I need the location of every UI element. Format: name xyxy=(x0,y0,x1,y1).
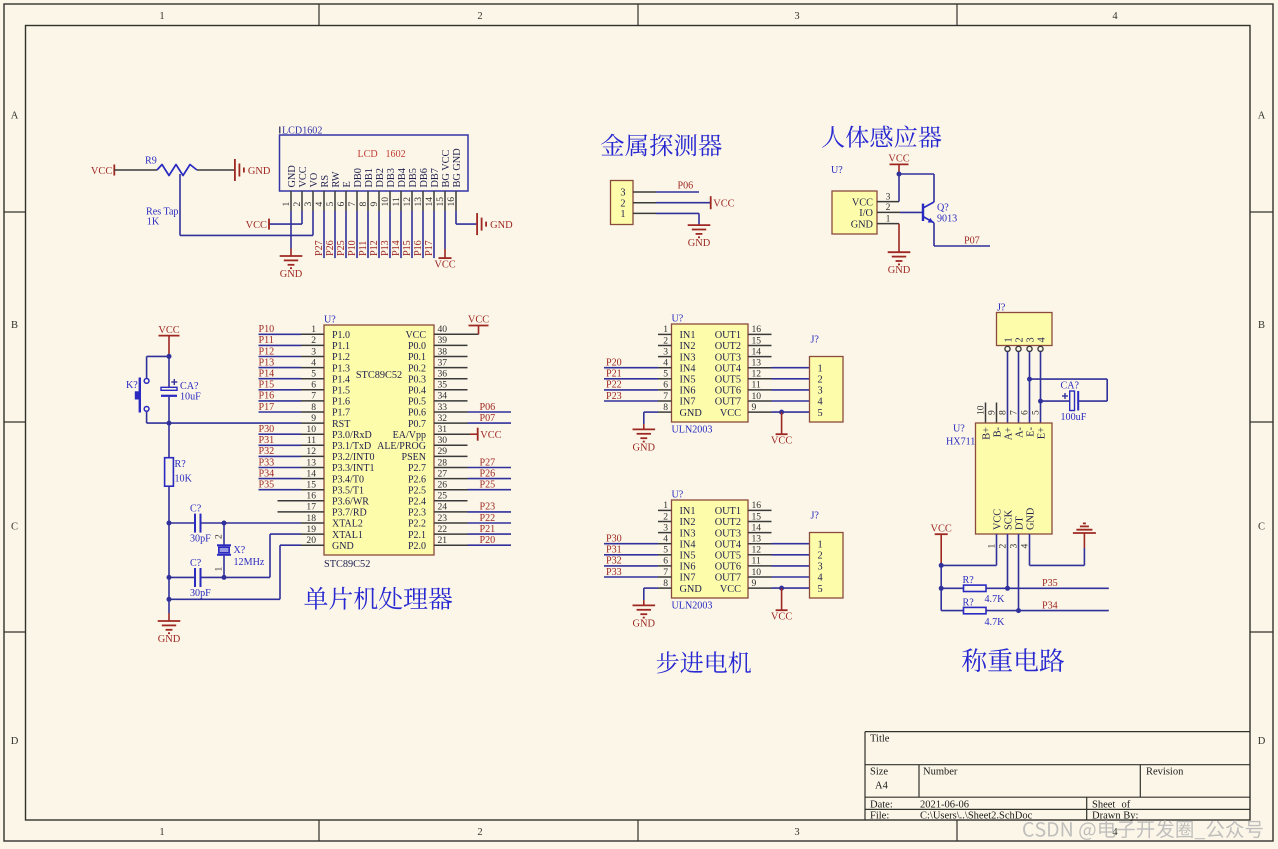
VCC rail xyxy=(940,565,942,610)
svg-text:P27: P27 xyxy=(480,457,496,468)
MCU pin 8 wire net P17 xyxy=(259,411,302,413)
MCU pin 31 wire xyxy=(434,433,470,435)
svg-text:IN5: IN5 xyxy=(680,375,696,386)
power port VCC (ULN2003-A) xyxy=(776,433,788,435)
svg-text:30: 30 xyxy=(438,435,448,446)
svg-text:VCC: VCC xyxy=(992,509,1003,530)
svg-text:14: 14 xyxy=(424,197,435,207)
MCU pin 30 stub xyxy=(434,444,468,446)
svg-text:6: 6 xyxy=(1020,410,1031,415)
ULN2003-B pin 16 stub xyxy=(748,509,772,511)
svg-text:IN7: IN7 xyxy=(680,397,696,408)
zone tick top 3|4 xyxy=(956,4,958,26)
MCU pin 32 wire net P07 xyxy=(434,422,468,424)
capacitor CA? top plate xyxy=(161,387,177,390)
wire button to node2 xyxy=(146,411,148,423)
svg-text:1: 1 xyxy=(818,363,823,374)
capacitor CA? 100uF left plate xyxy=(1070,391,1075,411)
svg-text:P23: P23 xyxy=(480,502,496,513)
ULN2003-B pin 10 wire to connector xyxy=(748,576,772,578)
svg-text:5: 5 xyxy=(1031,410,1042,415)
svg-text:P26: P26 xyxy=(480,468,496,479)
svg-text:P14: P14 xyxy=(259,369,275,380)
wire rail to R1 xyxy=(941,587,963,589)
svg-text:BG GND: BG GND xyxy=(452,148,463,188)
ULN2003-B pin 12 wire to connector xyxy=(748,554,772,556)
zone tick right A|B xyxy=(1250,211,1273,213)
svg-text:DB7: DB7 xyxy=(430,168,441,187)
HX711 SCK pin wire xyxy=(1007,534,1009,588)
junction (sensor VCC node) xyxy=(897,172,902,177)
svg-text:7: 7 xyxy=(663,567,668,578)
capacitor C? (upper 30pF) plates xyxy=(194,514,196,533)
svg-text:DB4: DB4 xyxy=(397,168,408,187)
ULN2003-B pin 6 wire net P32 xyxy=(604,565,658,567)
svg-text:P0.2: P0.2 xyxy=(408,363,426,374)
svg-text:1: 1 xyxy=(159,827,164,838)
svg-text:GND: GND xyxy=(680,584,703,595)
MCU pin 21 wire net P20 xyxy=(434,544,468,546)
ULN2003-A pin 13 wire to connector xyxy=(748,367,772,369)
junction (DT/P34) xyxy=(1016,608,1021,613)
svg-text:P1.2: P1.2 xyxy=(332,352,350,363)
svg-text:12: 12 xyxy=(402,197,413,207)
wire cap to E+ node xyxy=(1041,400,1070,402)
svg-text:DB2: DB2 xyxy=(375,168,386,187)
svg-text:13: 13 xyxy=(752,534,762,545)
zone tick bottom 3|4 xyxy=(956,820,958,841)
ground GND (right of R9) xyxy=(234,159,236,181)
svg-text:Drawn By:: Drawn By: xyxy=(1092,811,1138,822)
svg-text:P06: P06 xyxy=(678,181,694,192)
wire R9 to GND xyxy=(197,169,235,171)
svg-text:5: 5 xyxy=(663,369,668,380)
svg-text:LCD: LCD xyxy=(358,149,378,160)
svg-text:3: 3 xyxy=(620,188,625,199)
svg-text:A: A xyxy=(11,110,19,121)
svg-text:8: 8 xyxy=(663,402,668,413)
svg-text:14: 14 xyxy=(752,346,762,357)
svg-text:P3.2/INT0: P3.2/INT0 xyxy=(332,452,375,463)
HX711 pin 9 stub xyxy=(996,403,998,424)
svg-text:I/O: I/O xyxy=(859,208,873,219)
svg-text:B+: B+ xyxy=(981,427,992,440)
svg-text:IN4: IN4 xyxy=(680,363,696,374)
svg-text:4: 4 xyxy=(311,357,316,368)
svg-text:100uF: 100uF xyxy=(1061,412,1087,423)
svg-text:10uF: 10uF xyxy=(180,392,201,403)
svg-text:File:: File: xyxy=(870,811,889,822)
wire VCC to junction xyxy=(898,164,900,174)
ULN2003-B pin 13 wire to connector xyxy=(748,543,772,545)
transistor Q1 emitter arrow xyxy=(928,218,934,223)
svg-text:6: 6 xyxy=(336,202,347,207)
svg-text:IN2: IN2 xyxy=(680,341,696,352)
wire LCD pin 8 net P11 xyxy=(367,211,369,258)
svg-text:A: A xyxy=(1258,110,1266,121)
wire LCD pin 6 net P25 xyxy=(345,211,347,258)
ground GND (LCD pin1) xyxy=(280,255,303,257)
ULN2003-B pin 14 stub xyxy=(748,532,772,534)
MCU pin 40 wire xyxy=(434,333,479,335)
resistor R? 10K body xyxy=(165,458,174,487)
svg-text:OUT2: OUT2 xyxy=(715,517,741,528)
svg-text:4.7K: 4.7K xyxy=(985,594,1006,605)
svg-text:P35: P35 xyxy=(259,480,275,491)
svg-text:VCC: VCC xyxy=(720,584,741,595)
svg-text:U?: U? xyxy=(672,314,684,325)
svg-text:C: C xyxy=(1258,522,1265,533)
zone tick top 2|3 xyxy=(637,4,639,26)
svg-text:R?: R? xyxy=(963,597,975,608)
svg-text:16: 16 xyxy=(306,491,316,502)
svg-text:P13: P13 xyxy=(380,240,391,256)
power port VCC (reset circuit) xyxy=(159,335,180,337)
svg-text:26: 26 xyxy=(438,480,448,491)
wire pin2 to VCC xyxy=(656,202,711,204)
MCU pin 14 wire net P34 xyxy=(259,478,302,480)
wire node1 to cap CA xyxy=(168,356,170,387)
svg-text:IN6: IN6 xyxy=(680,562,696,573)
HX711 DT pin wire xyxy=(1018,534,1020,611)
svg-text:2: 2 xyxy=(311,335,316,346)
junction (E- node) xyxy=(1027,377,1032,382)
svg-text:GND: GND xyxy=(280,269,303,280)
wire LCD pin15 to VCC xyxy=(444,211,446,249)
svg-text:P07: P07 xyxy=(964,236,980,247)
svg-text:CA?: CA? xyxy=(1061,381,1080,392)
svg-text:VO: VO xyxy=(309,172,320,187)
svg-text:J?: J? xyxy=(811,334,820,345)
wire node4 to crystal xyxy=(223,523,225,545)
ULN2003-A pin 7 wire net P23 xyxy=(604,400,658,402)
wire cap C1 to node4 xyxy=(201,522,225,524)
svg-text:VCC: VCC xyxy=(771,612,792,623)
wire R2 to DT junction xyxy=(986,610,1019,612)
svg-text:P35: P35 xyxy=(1042,578,1058,589)
svg-text:P11: P11 xyxy=(358,241,369,256)
sensor pin 2 xyxy=(877,211,900,213)
title block outline xyxy=(865,732,1250,820)
junction node1 xyxy=(167,354,172,359)
svg-text:DB6: DB6 xyxy=(419,168,430,187)
power port VCC (sensor) xyxy=(890,163,909,165)
svg-text:12: 12 xyxy=(752,545,762,556)
wire VCC to R9 xyxy=(114,169,157,171)
MCU pin 28 wire net P27 xyxy=(434,467,468,469)
svg-text:5: 5 xyxy=(818,584,823,595)
svg-text:P21: P21 xyxy=(480,524,496,535)
ULN2003-B pin 2 stub xyxy=(658,521,672,523)
svg-text:P3.5/T1: P3.5/T1 xyxy=(332,485,364,496)
svg-text:P23: P23 xyxy=(606,391,622,402)
svg-text:GND: GND xyxy=(680,408,703,419)
ULN2003-A pin 1 stub xyxy=(658,333,672,335)
wire VCC down to rail xyxy=(940,534,942,565)
ULN2003-B pin 9 VCC wire xyxy=(748,587,772,589)
svg-text:2: 2 xyxy=(477,827,482,838)
HX711 pin 10 stub xyxy=(985,403,987,424)
svg-text:1: 1 xyxy=(1003,337,1014,342)
wire R9 tap xyxy=(179,174,181,235)
svg-text:OUT3: OUT3 xyxy=(715,528,741,539)
LCD pin 13 xyxy=(422,191,424,211)
svg-text:Q?: Q? xyxy=(937,203,949,214)
zone tick top 1|2 xyxy=(318,4,320,26)
svg-text:OUT5: OUT5 xyxy=(715,375,741,386)
svg-text:P3.1/TxD: P3.1/TxD xyxy=(332,441,371,452)
section title 人体感应器 xyxy=(822,125,941,147)
MCU pin 15 wire net P35 xyxy=(259,489,302,491)
svg-text:OUT7: OUT7 xyxy=(715,573,741,584)
svg-text:12MHz: 12MHz xyxy=(234,557,265,568)
svg-text:VCC: VCC xyxy=(713,199,734,210)
svg-text:3: 3 xyxy=(311,346,316,357)
svg-text:R?: R? xyxy=(963,575,975,586)
svg-text:of: of xyxy=(1122,799,1131,810)
connector J? body (ULN2003-A) xyxy=(810,357,844,423)
section title 金属探测器 xyxy=(601,134,722,157)
svg-text:3: 3 xyxy=(794,11,799,22)
LCD pin 10 xyxy=(389,191,391,211)
svg-text:P31: P31 xyxy=(606,545,622,556)
svg-text:J?: J? xyxy=(811,510,820,521)
svg-text:P2.2: P2.2 xyxy=(408,519,426,530)
svg-text:STC89C52: STC89C52 xyxy=(324,559,370,570)
ULN2003-A pin 10 wire to connector xyxy=(748,400,772,402)
svg-text:VCC: VCC xyxy=(771,436,792,447)
LCD1602 component body xyxy=(280,135,469,191)
svg-text:DB3: DB3 xyxy=(386,168,397,187)
wire LCD pin 14 net P17 xyxy=(433,211,435,258)
sensor pin 3 xyxy=(877,201,899,203)
MCU pin 6 wire net P15 xyxy=(259,389,302,391)
svg-text:IN6: IN6 xyxy=(680,386,696,397)
LCD pin 3 xyxy=(312,191,314,211)
wire net P35 xyxy=(1008,587,1109,589)
svg-text:P14: P14 xyxy=(391,240,402,256)
power port VCC (LCD pin2) xyxy=(268,219,270,230)
connector pin 1 xyxy=(633,212,656,214)
load cell connector pin 1 circle xyxy=(1005,346,1010,351)
svg-text:22: 22 xyxy=(438,524,448,535)
svg-text:XTAL1: XTAL1 xyxy=(332,530,363,541)
ground GND (LCD pin16) xyxy=(476,213,478,235)
svg-text:5: 5 xyxy=(663,545,668,556)
svg-text:P17: P17 xyxy=(424,240,435,256)
svg-text:16: 16 xyxy=(446,197,457,207)
junction (VCC rail 2) xyxy=(939,586,944,591)
svg-text:D: D xyxy=(1258,736,1266,747)
svg-text:P0.5: P0.5 xyxy=(408,397,426,408)
ULN2003-B pin 11 wire to connector xyxy=(748,565,772,567)
svg-text:11: 11 xyxy=(752,556,761,567)
svg-text:P2.4: P2.4 xyxy=(408,497,426,508)
LCD pin 7 xyxy=(356,191,358,211)
svg-text:4: 4 xyxy=(1036,337,1047,342)
wire to earth xyxy=(1083,533,1085,548)
svg-text:31: 31 xyxy=(438,424,448,435)
svg-text:VCC: VCC xyxy=(931,523,952,534)
LCD pin 1 xyxy=(290,191,292,211)
MCU pin 22 wire net P21 xyxy=(434,533,468,535)
ground GND (ULN2003-A) xyxy=(633,428,656,430)
svg-text:30pF: 30pF xyxy=(190,534,211,545)
wire E- to cap CA? right xyxy=(1030,378,1108,380)
svg-text:R?: R? xyxy=(175,459,187,470)
ULN2003-B pin 1 stub xyxy=(658,509,672,511)
wire node4 to MCU pin18 XTAL2 xyxy=(224,522,301,524)
svg-text:P0.1: P0.1 xyxy=(408,352,426,363)
power port VCC (ULN2003-B) xyxy=(776,609,788,611)
svg-text:HX711: HX711 xyxy=(946,437,975,448)
wire pin1 to GND xyxy=(898,224,900,253)
zone tick left C|D xyxy=(4,631,26,633)
MCU pin 10 wire net P30 xyxy=(259,433,302,435)
svg-text:IN1: IN1 xyxy=(680,506,696,517)
svg-text:32: 32 xyxy=(438,413,448,424)
svg-text:4.7K: 4.7K xyxy=(985,617,1006,628)
transistor Q1 emitter xyxy=(923,217,934,223)
ULN2003-A pin 12 wire to connector xyxy=(748,378,772,380)
svg-text:VCC: VCC xyxy=(480,430,501,441)
svg-text:Revision: Revision xyxy=(1146,767,1184,778)
U? HX711 component body xyxy=(976,423,1053,534)
LCD pin 16 xyxy=(455,191,457,211)
zone tick bottom 1|2 xyxy=(318,820,320,841)
svg-text:P1.7: P1.7 xyxy=(332,408,350,419)
ground GND (metal detector) xyxy=(688,224,711,226)
LCD pin 15 xyxy=(444,191,446,211)
svg-text:P10: P10 xyxy=(259,324,275,335)
wire node1 to button xyxy=(147,355,169,357)
svg-text:OUT6: OUT6 xyxy=(715,386,741,397)
LCD pin 2 xyxy=(301,191,303,211)
svg-text:2021-06-06: 2021-06-06 xyxy=(920,799,969,810)
svg-text:ULN2003: ULN2003 xyxy=(672,601,713,612)
power port VCC (MCU pin40) xyxy=(469,325,489,327)
zone tick left B|C xyxy=(4,421,26,423)
sensor module body U? xyxy=(832,191,877,234)
load cell connector pin 4 circle xyxy=(1038,346,1043,351)
svg-text:P0.0: P0.0 xyxy=(408,341,426,352)
svg-text:RW: RW xyxy=(331,171,342,187)
svg-text:P1.3: P1.3 xyxy=(332,363,350,374)
ULN2003-A pin 16 stub xyxy=(748,333,772,335)
svg-text:OUT5: OUT5 xyxy=(715,551,741,562)
transistor Q1 collector xyxy=(923,202,934,208)
MCU pin 33 wire net P06 xyxy=(434,411,468,413)
svg-text:14: 14 xyxy=(306,468,316,479)
svg-text:4: 4 xyxy=(818,397,823,408)
ULN2003-B pin 3 stub xyxy=(658,532,672,534)
svg-text:P1.5: P1.5 xyxy=(332,386,350,397)
wire node3 to cap C1 xyxy=(169,522,195,524)
svg-text:10: 10 xyxy=(976,405,987,415)
svg-text:P22: P22 xyxy=(480,513,496,524)
svg-text:SCK: SCK xyxy=(1003,509,1014,530)
svg-text:8: 8 xyxy=(358,202,369,207)
MCU pin 23 wire net P22 xyxy=(434,522,468,524)
svg-text:13: 13 xyxy=(413,197,424,207)
svg-text:STC89C52: STC89C52 xyxy=(356,370,402,381)
main rail down xyxy=(168,523,170,599)
MCU pin 24 wire net P23 xyxy=(434,511,468,513)
svg-text:27: 27 xyxy=(438,468,448,479)
svg-text:39: 39 xyxy=(438,335,448,346)
ULN2003-A pin 11 wire to connector xyxy=(748,389,772,391)
MCU pin 3 wire net P12 xyxy=(259,356,302,358)
ULN2003-A pin 9 VCC wire xyxy=(748,411,772,413)
svg-text:P25: P25 xyxy=(336,240,347,256)
svg-text:5: 5 xyxy=(325,202,336,207)
svg-text:GND: GND xyxy=(248,166,271,177)
svg-text:Number: Number xyxy=(923,767,958,778)
svg-text:9: 9 xyxy=(752,578,757,589)
svg-text:29: 29 xyxy=(438,446,448,457)
LCD pin 14 xyxy=(433,191,435,211)
MCU pin 7 wire net P16 xyxy=(259,400,302,402)
wire to VCC bar xyxy=(781,588,783,610)
svg-text:P17: P17 xyxy=(259,402,275,413)
svg-text:15: 15 xyxy=(306,480,316,491)
svg-text:1: 1 xyxy=(281,202,292,207)
svg-text:20: 20 xyxy=(306,535,316,546)
wire rail corner to R2 xyxy=(941,610,963,612)
junction (VCC rail 1) xyxy=(939,563,944,568)
svg-text:P10: P10 xyxy=(347,240,358,256)
resistor R? 4.7K lower body xyxy=(964,607,987,613)
junction (ULN2003-B VCC) xyxy=(779,586,784,591)
svg-text:12: 12 xyxy=(752,369,762,380)
svg-text:9: 9 xyxy=(987,410,998,415)
wire XTAL1 jog xyxy=(301,533,324,535)
svg-text:38: 38 xyxy=(438,346,448,357)
wire cap to node2 xyxy=(168,397,170,423)
wire pin3 net P06 xyxy=(656,191,699,193)
svg-text:X?: X? xyxy=(234,545,246,556)
svg-text:P16: P16 xyxy=(413,240,424,256)
svg-text:R9: R9 xyxy=(145,156,157,167)
svg-text:2: 2 xyxy=(477,11,482,22)
svg-text:E+: E+ xyxy=(1036,427,1047,439)
junction node7 xyxy=(167,597,172,602)
zone tick right B|C xyxy=(1250,421,1273,423)
U1 STC89C52 component body xyxy=(324,325,434,555)
svg-text:8: 8 xyxy=(663,578,668,589)
svg-text:6: 6 xyxy=(663,556,668,567)
svg-text:P2.7: P2.7 xyxy=(408,463,426,474)
capacitor CA? 100uF right plate xyxy=(1077,391,1079,411)
svg-text:2: 2 xyxy=(663,335,668,346)
svg-text:37: 37 xyxy=(438,357,448,368)
svg-text:P1.6: P1.6 xyxy=(332,397,350,408)
wire LCD pin 12 net P15 xyxy=(411,211,413,258)
connector J? body (ULN2003-B) xyxy=(810,533,844,599)
svg-text:P1.0: P1.0 xyxy=(332,330,350,341)
svg-text:IN3: IN3 xyxy=(680,352,696,363)
svg-text:30pF: 30pF xyxy=(190,588,211,599)
svg-text:C?: C? xyxy=(190,558,202,569)
wire LCD pin 7 net P10 xyxy=(356,211,358,258)
ULN2003-B pin 15 stub xyxy=(748,521,772,523)
svg-text:B: B xyxy=(1258,320,1265,331)
MCU pin 34 stub xyxy=(434,400,468,402)
svg-text:9: 9 xyxy=(311,413,316,424)
svg-text:GND: GND xyxy=(158,634,181,645)
LCD pin 4 xyxy=(323,191,325,211)
svg-text:25: 25 xyxy=(438,491,448,502)
